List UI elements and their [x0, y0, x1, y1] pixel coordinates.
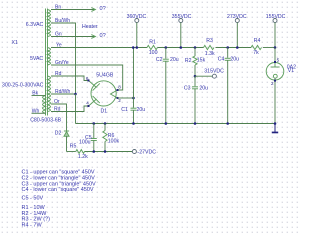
svg-text:R4 - 7W: R4 - 7W: [22, 223, 43, 229]
svg-text:C4 - lower can "square" 450V: C4 - lower can "square" 450V: [22, 187, 94, 193]
junction ground/R6: [104, 122, 107, 125]
wire Gn heater lead with arrow: [51, 35, 95, 39]
svg-text:100k: 100k: [108, 139, 120, 145]
junction 360VDC/bus: [136, 46, 139, 49]
tube D1 lower plate: [89, 96, 100, 106]
capacitor C2: [163, 48, 169, 124]
bias bus -27V: [85, 151, 133, 153]
transformer X1 core: [46, 9, 48, 116]
svg-text:4: 4: [86, 100, 89, 105]
svg-text:R1: R1: [149, 39, 156, 45]
svg-text:X1: X1: [12, 40, 18, 46]
resistor R5: [67, 150, 85, 154]
junction bus/C4: [226, 46, 229, 49]
svg-text:Bn: Bn: [55, 5, 61, 11]
junction 155VDC/bus: [274, 46, 277, 49]
pin pad 8: [117, 89, 119, 91]
svg-text:Rd: Rd: [55, 71, 62, 77]
tube D1 5U4GB envelope: [91, 81, 116, 106]
junction ground bus right end: [274, 122, 277, 125]
junction 355VDC/bus: [180, 46, 183, 49]
svg-text:C3: C3: [184, 85, 191, 91]
svg-text:6: 6: [86, 76, 89, 81]
svg-text:315VDC: 315VDC: [204, 68, 224, 74]
capacitor C5: [91, 124, 97, 152]
svg-text:R2: R2: [185, 58, 192, 64]
svg-text:0?: 0?: [100, 33, 106, 39]
svg-text:7k: 7k: [253, 50, 259, 56]
svg-text:D2: D2: [55, 130, 62, 136]
wire bus to C1 node: [133, 48, 135, 108]
resistor R4: [251, 45, 262, 49]
svg-text:20u: 20u: [199, 85, 208, 91]
svg-text:2: 2: [118, 98, 121, 103]
svg-text:20u: 20u: [137, 107, 146, 113]
svg-text:5U4GB: 5U4GB: [96, 72, 114, 78]
wire Rd lower plate lead to pin 4: [51, 106, 89, 112]
resistor R3: [204, 45, 215, 49]
wire Bu/Wh heater center tap: [51, 23, 76, 94]
capacitor C4: [225, 48, 231, 124]
junction 315VDC tap: [194, 75, 197, 78]
resistor R1: [147, 45, 158, 49]
transformer X1 6.3V secondary winding: [48, 10, 51, 37]
svg-text:Rd/Wh: Rd/Wh: [55, 89, 71, 95]
junction R6/bias bus: [104, 150, 107, 153]
junction C2/ground bus: [165, 122, 168, 125]
wire Bn heater lead with arrow: [51, 8, 95, 12]
svg-text:Ye: Ye: [56, 43, 62, 49]
terminal 360VDC: [135, 19, 139, 48]
svg-text:1.2k: 1.2k: [78, 154, 88, 160]
capacitor C1: [131, 108, 137, 123]
wire Or bias tap: [51, 104, 67, 131]
terminal -27VDC: [132, 150, 136, 154]
svg-text:5: 5: [277, 57, 280, 62]
svg-text:360VDC: 360VDC: [127, 14, 147, 20]
svg-text:273VDC: 273VDC: [227, 14, 247, 20]
wire Ye / B+ bus: [51, 47, 275, 49]
terminal 315VDC: [195, 74, 216, 78]
junction pin2 node: [132, 97, 135, 100]
svg-text:155VDC: 155VDC: [266, 14, 286, 20]
pin pad top (0A2): [274, 61, 276, 63]
svg-text:5VAC: 5VAC: [30, 56, 43, 62]
svg-text:15k: 15k: [197, 58, 206, 64]
pin pad 2: [117, 97, 119, 99]
capacitor C3: [192, 76, 198, 123]
junction C1/ground bus: [132, 122, 135, 125]
junction bus/C2: [165, 46, 168, 49]
wire tube V1 cathode to ground bus: [274, 78, 276, 123]
transformer X1 HV secondary winding: [48, 76, 51, 112]
svg-text:1.3k: 1.3k: [205, 51, 215, 57]
svg-text:Bu/Wh: Bu/Wh: [55, 18, 70, 24]
svg-text:Gn: Gn: [55, 32, 62, 38]
diode D2: [64, 131, 69, 152]
junction C3/ground bus: [194, 122, 197, 125]
terminal 155VDC: [273, 19, 277, 48]
svg-text:8: 8: [118, 85, 121, 90]
terminal 355VDC: [179, 19, 183, 48]
svg-text:300-25-0-300VAC: 300-25-0-300VAC: [2, 83, 44, 89]
svg-text:Bk: Bk: [32, 91, 38, 97]
pin pad 4: [88, 105, 90, 107]
svg-text:Heater: Heater: [82, 24, 98, 30]
svg-text:R3: R3: [206, 38, 213, 44]
transformer X1 primary winding: [43, 96, 46, 114]
svg-text:-27VDC: -27VDC: [138, 150, 157, 156]
wire Bk primary lead: [32, 95, 46, 97]
tube D1 filament: [111, 90, 118, 98]
wire center tap down to ground bus: [75, 94, 77, 124]
wire pin 2 to B+ node: [118, 97, 134, 99]
svg-text:R4: R4: [254, 38, 261, 44]
svg-text:C4: C4: [218, 56, 225, 62]
wire bus down to tube V1: [274, 48, 276, 63]
wire Rd/Wh HV center tap: [51, 93, 76, 95]
svg-text:Wh: Wh: [32, 108, 40, 114]
svg-text:100u: 100u: [79, 139, 91, 145]
junction bus/C1: [132, 46, 135, 49]
tube V1 anode plate: [271, 63, 280, 68]
svg-text:C80-5003-6B: C80-5003-6B: [30, 117, 61, 123]
tube V1 cathode: [273, 74, 277, 78]
svg-text:100: 100: [149, 50, 158, 56]
junction bus/R2: [194, 46, 197, 49]
junction C5/bias bus: [93, 150, 96, 153]
svg-text:20u: 20u: [230, 56, 239, 62]
junction 273VDC/bus: [236, 46, 239, 49]
svg-text:C5 - 50V: C5 - 50V: [22, 196, 44, 202]
svg-text:355VDC: 355VDC: [172, 14, 192, 20]
svg-text:20u: 20u: [170, 57, 179, 63]
svg-text:Gn/Ye: Gn/Ye: [55, 60, 69, 66]
transformer X1 5V secondary winding: [48, 48, 51, 66]
resistor R6: [103, 124, 107, 152]
svg-text:6.3VAC: 6.3VAC: [26, 22, 44, 28]
svg-text:V1: V1: [288, 68, 294, 74]
tube D1 upper plate: [89, 81, 100, 91]
junction C4/ground bus: [226, 122, 229, 125]
svg-text:C2: C2: [156, 57, 163, 63]
svg-text:Rd: Rd: [54, 107, 61, 113]
resistor R2: [193, 48, 197, 77]
wire Gn/Ye to pin 8: [51, 65, 123, 90]
svg-text:2: 2: [271, 81, 274, 86]
pin pad 6: [88, 80, 90, 82]
svg-text:R5: R5: [70, 144, 77, 150]
pin pad bottom (0A2): [274, 80, 276, 82]
junction ground/C5: [93, 122, 96, 125]
ground bus: [76, 123, 276, 125]
terminal 273VDC: [235, 19, 239, 48]
tube V1 0A2 envelope: [266, 63, 284, 81]
wire Wh primary lead: [32, 112, 46, 114]
svg-text:0?: 0?: [100, 6, 106, 12]
wire Rd upper plate lead to pin 6: [51, 76, 89, 81]
svg-text:Or: Or: [54, 99, 60, 105]
svg-text:D1: D1: [101, 109, 108, 115]
ground: [272, 124, 278, 134]
junction at center taps: [74, 93, 77, 96]
svg-text:C1: C1: [121, 107, 128, 113]
